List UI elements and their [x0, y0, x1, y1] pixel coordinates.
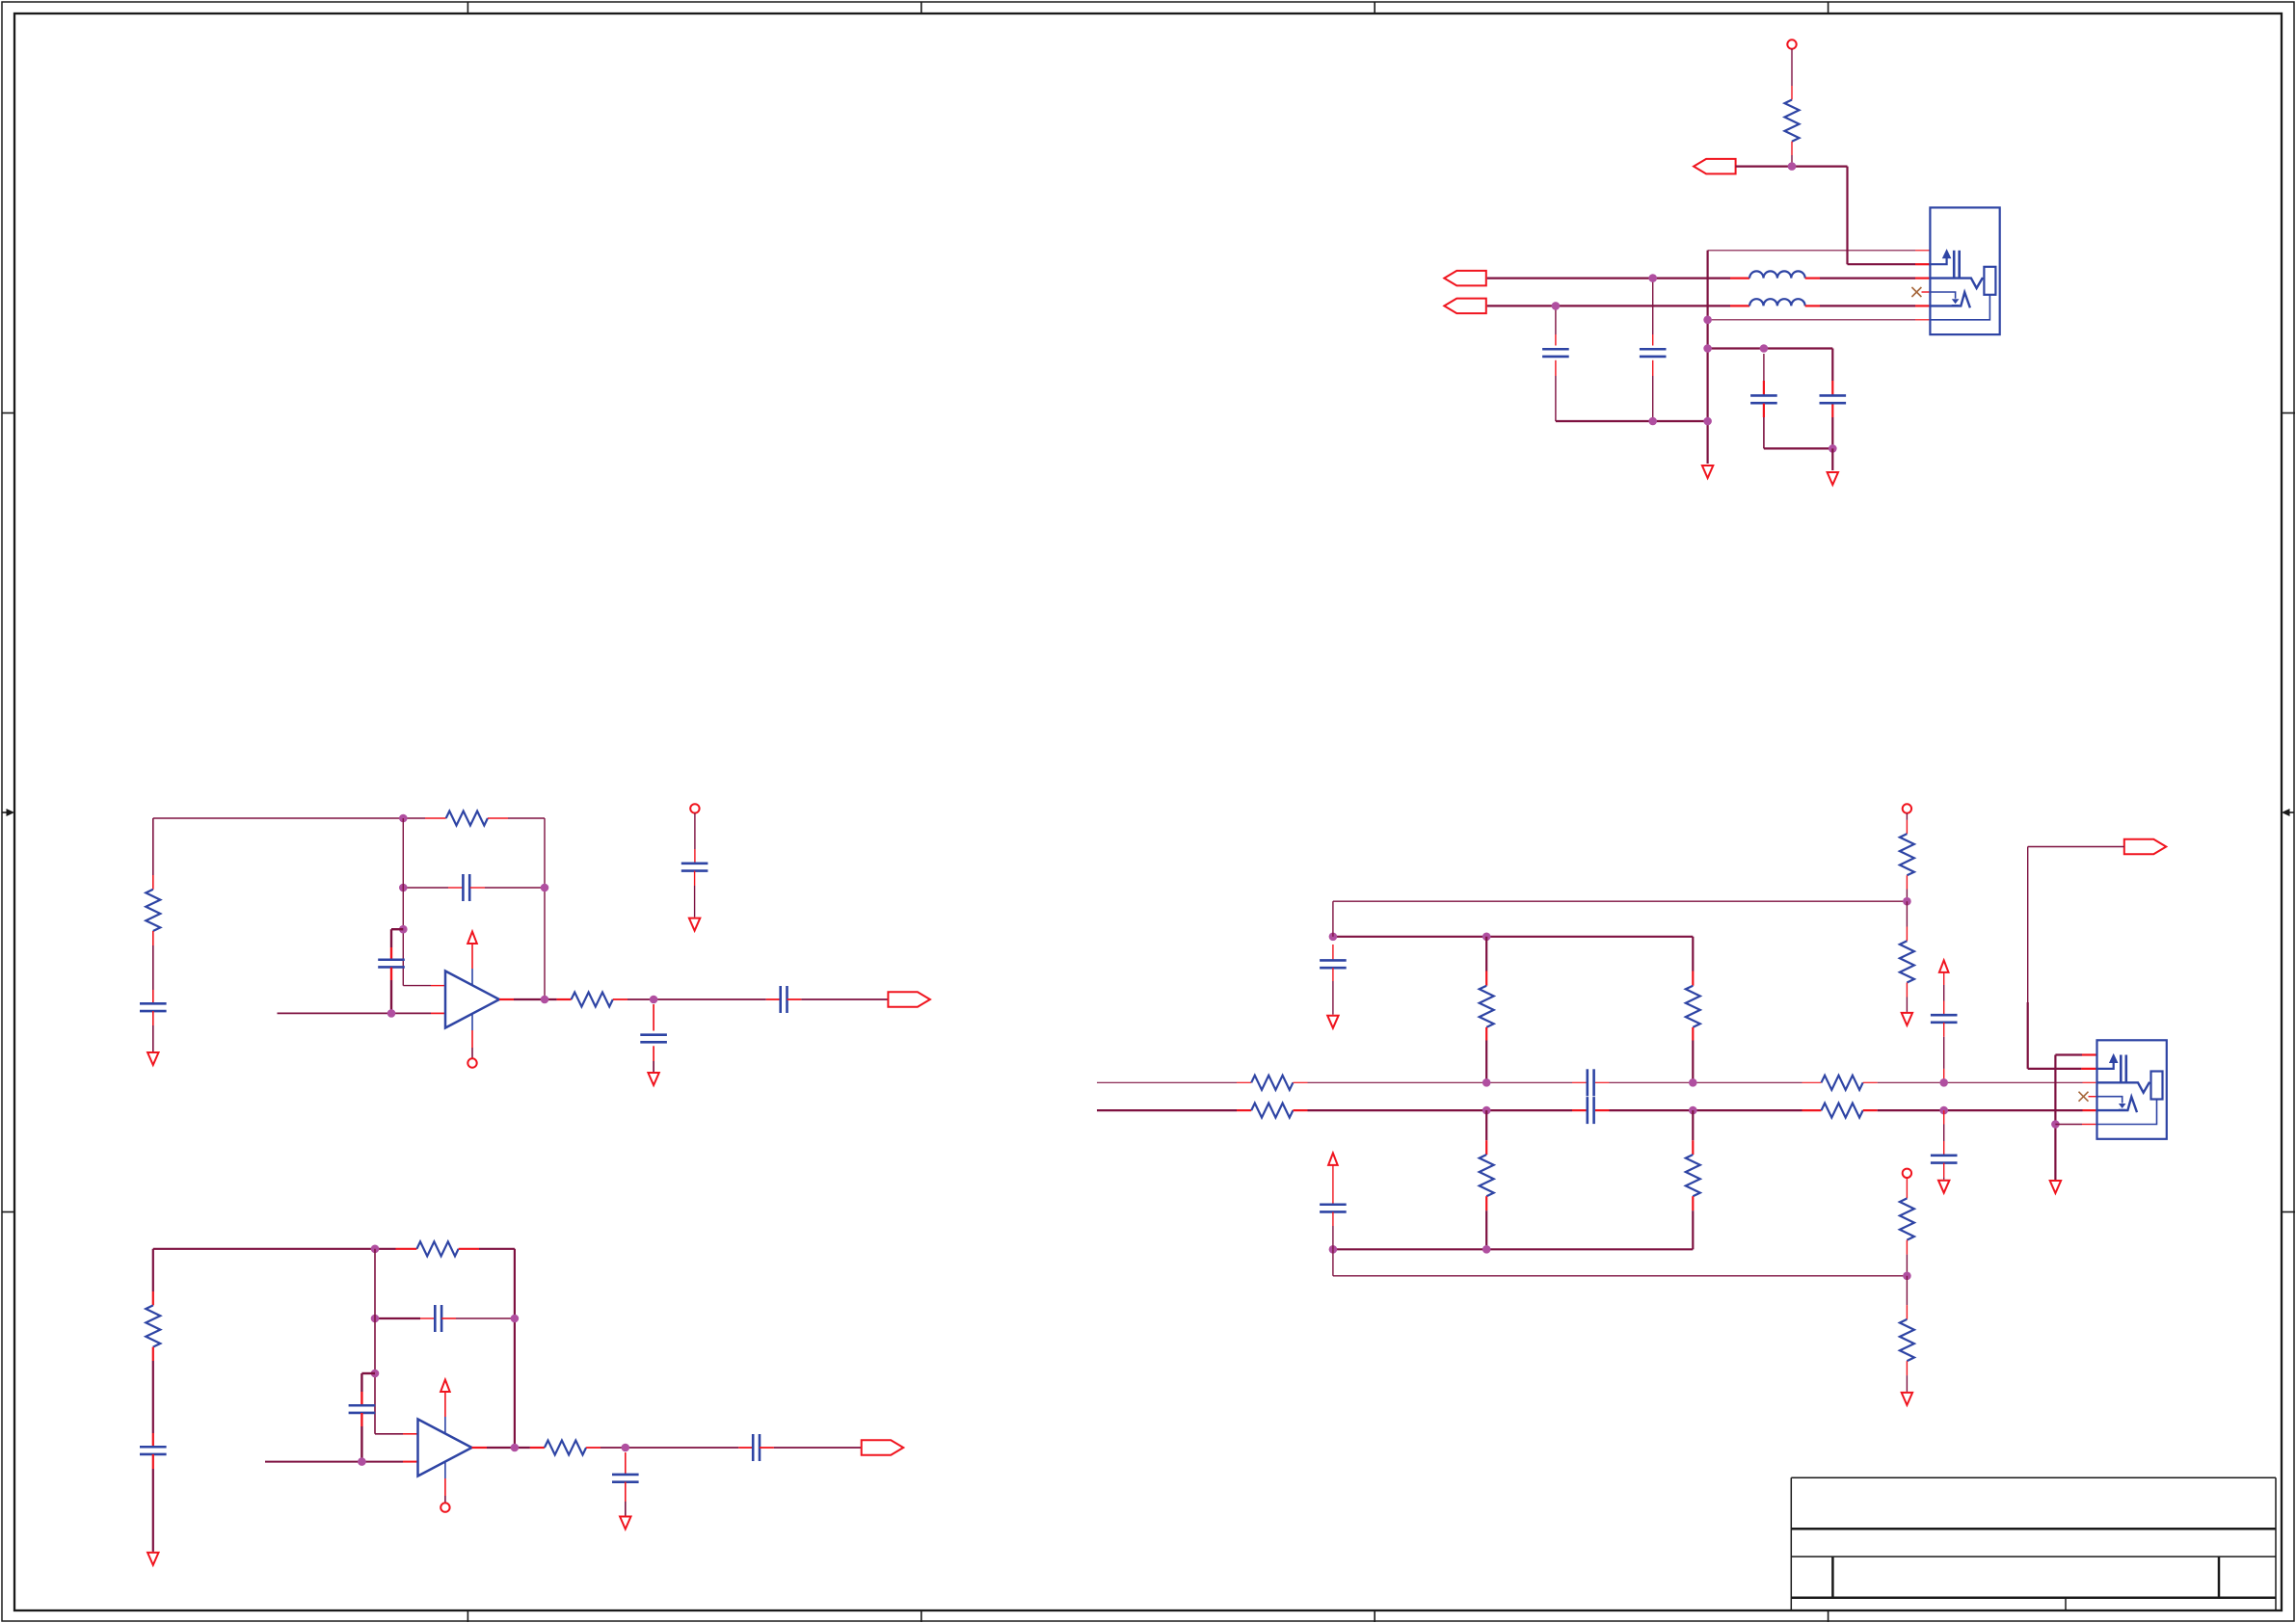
wire — [1333, 936, 1693, 938]
capacitor C12 — [434, 1305, 437, 1332]
resistor R9 — [1251, 1076, 1293, 1090]
wire — [1293, 1081, 1307, 1083]
wire — [1333, 1248, 1693, 1250]
wire — [1332, 945, 1334, 960]
wire — [788, 998, 802, 1000]
node junction — [1329, 933, 1338, 942]
wire — [1595, 1109, 1610, 1111]
wire — [152, 1454, 154, 1469]
capacitor C2 — [1640, 348, 1667, 351]
resistor R5 — [572, 993, 613, 1007]
node junction — [399, 884, 408, 892]
node junction — [1703, 344, 1712, 353]
wire — [1943, 1110, 1945, 1124]
resistor R4 — [146, 890, 160, 931]
resistor R12 — [1822, 1104, 1863, 1118]
node junction — [541, 996, 549, 1004]
ground — [1327, 1016, 1338, 1028]
node junction — [1482, 1106, 1491, 1115]
wire — [152, 1347, 154, 1361]
wire — [1555, 360, 1557, 376]
wire — [586, 1447, 601, 1449]
wire — [2055, 1053, 2082, 1055]
node junction — [1703, 316, 1712, 325]
wire — [694, 871, 696, 887]
capacitor C21 — [1931, 1155, 1958, 1157]
wire — [1831, 448, 1833, 470]
ground — [620, 1517, 630, 1530]
wire — [1332, 968, 1334, 981]
node junction — [1760, 344, 1769, 353]
wire — [2054, 1055, 2056, 1181]
capacitor C11 — [140, 1446, 167, 1449]
capacitor C10 — [681, 863, 708, 865]
power circle V- — [467, 1058, 476, 1067]
node junction — [2051, 1120, 2060, 1129]
node junction — [1788, 162, 1797, 171]
resistor R14 — [1480, 1155, 1494, 1196]
capacitor C6 — [462, 874, 465, 901]
wire — [514, 1249, 516, 1448]
ground — [1938, 1181, 1949, 1193]
ground — [1702, 466, 1713, 478]
wire — [1906, 1240, 1908, 1255]
wire — [1906, 983, 1908, 998]
capacitor C5 — [140, 1002, 167, 1005]
resistor R18 — [1900, 941, 1914, 982]
wire — [1708, 250, 1915, 252]
wire — [391, 928, 403, 930]
wire — [472, 1447, 488, 1449]
inductor L2 — [1749, 299, 1805, 306]
node junction — [371, 1315, 380, 1323]
ground — [2050, 1181, 2061, 1193]
wire — [153, 1248, 396, 1250]
capacitor C4 — [1820, 394, 1847, 397]
wire — [152, 818, 154, 875]
wire — [1487, 305, 1730, 306]
wire — [1706, 251, 1708, 464]
wire — [1791, 142, 1793, 155]
wire — [1332, 1249, 1334, 1276]
wire — [1485, 1027, 1487, 1041]
wire — [1736, 166, 1848, 168]
wire — [1863, 1081, 1878, 1083]
node junction — [511, 1315, 520, 1323]
wire — [1692, 1027, 1694, 1041]
wire — [2028, 1068, 2082, 1070]
wire — [1595, 1081, 1610, 1083]
node junction — [511, 1444, 520, 1452]
wire — [544, 818, 546, 999]
wire — [403, 887, 448, 889]
wire — [1791, 49, 1793, 86]
wire — [360, 1413, 362, 1426]
wire — [1652, 360, 1654, 376]
op-amp U2 — [418, 1420, 472, 1477]
title block — [1791, 1477, 2276, 1478]
audio jack J1 — [1930, 207, 1999, 334]
wire — [653, 1004, 654, 1031]
node junction — [1552, 302, 1561, 310]
wire — [1805, 305, 1820, 306]
node junction — [358, 1457, 366, 1466]
node junction — [541, 884, 549, 892]
node junction — [1648, 274, 1657, 282]
node junction — [371, 1245, 380, 1254]
wire — [152, 931, 154, 945]
wire — [1556, 420, 1708, 422]
ground — [147, 1553, 158, 1565]
wire — [1692, 937, 1694, 971]
wire — [653, 1046, 654, 1061]
wire — [459, 1248, 479, 1250]
port HPL — [1444, 271, 1486, 286]
power arrow VREF3 — [1939, 960, 1949, 972]
capacitor C16 — [1587, 1069, 1589, 1096]
sheet zone tick marks — [467, 2, 468, 13]
node junction — [399, 814, 408, 823]
node junction — [1939, 1078, 1948, 1087]
node junction — [1482, 1078, 1491, 1087]
capacitor C3 — [1750, 394, 1777, 397]
wire — [278, 1012, 432, 1014]
wire — [1863, 1109, 1878, 1111]
audio jack J2 — [2097, 1040, 2167, 1139]
capacitor C13 — [349, 1404, 376, 1407]
node junction — [387, 1009, 396, 1018]
power pin — [471, 969, 473, 986]
wire — [1906, 1178, 1908, 1198]
wire — [403, 985, 431, 987]
resistor R20 — [1900, 1319, 1914, 1361]
port OUTL — [888, 992, 930, 1007]
wire — [1831, 349, 1833, 382]
wire — [1906, 875, 1908, 889]
wire — [152, 1011, 154, 1025]
capacitor C1 — [1542, 348, 1569, 351]
wire — [1906, 901, 1908, 926]
capacitor C14 — [752, 1434, 755, 1461]
ground — [689, 918, 700, 931]
wire — [1652, 279, 1654, 334]
power circle V- — [441, 1503, 449, 1511]
power arrow V+ — [441, 1380, 450, 1393]
no-connect — [2079, 1092, 2089, 1102]
wire — [1332, 1212, 1334, 1227]
node junction — [650, 996, 658, 1004]
wire — [499, 998, 514, 1000]
wire — [1097, 1081, 1237, 1083]
wire — [1487, 278, 1730, 279]
ground — [147, 1052, 158, 1065]
wire — [374, 1249, 376, 1434]
wire — [1943, 1163, 1945, 1178]
ground — [1902, 1393, 1912, 1405]
inductor L1 — [1749, 271, 1805, 278]
wire — [1332, 1165, 1334, 1204]
wire — [402, 818, 404, 986]
resistor R15 — [1686, 986, 1700, 1027]
wire — [488, 817, 508, 819]
resistor R17 — [1900, 834, 1914, 875]
wire — [1485, 1110, 1487, 1140]
capacitor C18 — [1320, 959, 1347, 962]
wire — [265, 1461, 403, 1463]
resistor R6 — [416, 1241, 458, 1256]
capacitor C17 — [1587, 1097, 1589, 1124]
wire — [1692, 1110, 1694, 1140]
node junction — [1903, 1272, 1911, 1281]
wire — [694, 813, 696, 849]
resistor R8 — [545, 1441, 586, 1455]
no-connect — [1911, 287, 1921, 297]
node junction — [399, 925, 408, 934]
wire — [153, 817, 425, 819]
wire — [1943, 972, 1945, 985]
power circle VDD1 — [1787, 40, 1796, 48]
node junction — [1903, 897, 1911, 906]
node junction — [1648, 417, 1657, 426]
wire — [390, 968, 392, 980]
power arrow VREF2 — [1328, 1153, 1338, 1165]
power circle VDD2 — [1903, 804, 1911, 812]
wire — [1943, 1023, 1945, 1037]
power arrow V+ — [467, 932, 477, 945]
node junction — [1482, 933, 1491, 942]
capacitor C8 — [779, 986, 782, 1013]
wire — [613, 998, 627, 1000]
power pin — [444, 1417, 446, 1434]
capacitor C15 — [612, 1474, 639, 1477]
wire — [375, 1317, 420, 1319]
ground — [648, 1073, 658, 1085]
wire — [1097, 1109, 1237, 1111]
resistor R11 — [1822, 1076, 1863, 1090]
wire — [1906, 1361, 1908, 1375]
resistor R13 — [1480, 986, 1494, 1027]
resistor R10 — [1251, 1104, 1293, 1118]
power pin — [471, 1014, 473, 1031]
power circle VREF1 — [690, 804, 699, 812]
node junction — [1482, 1245, 1491, 1254]
ground — [1828, 472, 1838, 485]
wire — [1708, 347, 1833, 349]
right centering arrow — [2289, 811, 2295, 813]
node junction — [1939, 1106, 1948, 1115]
capacitor C7 — [378, 958, 405, 961]
node junction — [1689, 1106, 1697, 1115]
wire — [625, 1452, 627, 1475]
wire — [2028, 846, 2124, 848]
wire — [470, 887, 485, 889]
wire — [1763, 404, 1765, 417]
wire — [375, 1433, 403, 1435]
port HPR — [1444, 299, 1486, 314]
node junction — [1829, 444, 1837, 453]
wire — [1485, 1196, 1487, 1211]
wire — [1555, 306, 1557, 334]
resistor R19 — [1900, 1198, 1914, 1239]
port DET_OUT — [2124, 839, 2167, 855]
capacitor C20 — [1931, 1014, 1958, 1017]
wire — [1708, 319, 1915, 321]
node junction — [622, 1444, 630, 1452]
port OUTR — [862, 1440, 904, 1455]
capacitor C19 — [1320, 1203, 1347, 1206]
wire — [1906, 813, 1908, 820]
wire — [1293, 1109, 1307, 1111]
wire — [760, 1447, 774, 1449]
wire — [625, 1482, 627, 1502]
resistor R3 — [446, 811, 488, 826]
power circle VDD3 — [1903, 1169, 1911, 1178]
op-amp U1 — [445, 971, 499, 1028]
resistor R1 — [1785, 100, 1800, 142]
wire — [1805, 278, 1820, 279]
wire — [1763, 354, 1765, 381]
ground — [1902, 1013, 1912, 1025]
wire — [1906, 1276, 1908, 1305]
node junction — [371, 1370, 380, 1378]
resistor R7 — [146, 1305, 160, 1346]
node junction — [1689, 1078, 1697, 1087]
node junction — [1329, 1245, 1338, 1254]
node junction — [1703, 417, 1712, 426]
wire — [1692, 1196, 1694, 1211]
power pin — [444, 1462, 446, 1479]
wire — [1485, 937, 1487, 971]
wire — [2055, 1124, 2082, 1126]
left centering arrow — [2, 811, 8, 813]
capacitor C9 — [640, 1033, 667, 1036]
port HP_DET — [1694, 159, 1736, 174]
wire — [441, 1317, 456, 1319]
resistor R16 — [1686, 1155, 1700, 1196]
wire — [361, 1372, 375, 1374]
wire — [1332, 901, 1334, 937]
wire — [152, 1249, 154, 1291]
